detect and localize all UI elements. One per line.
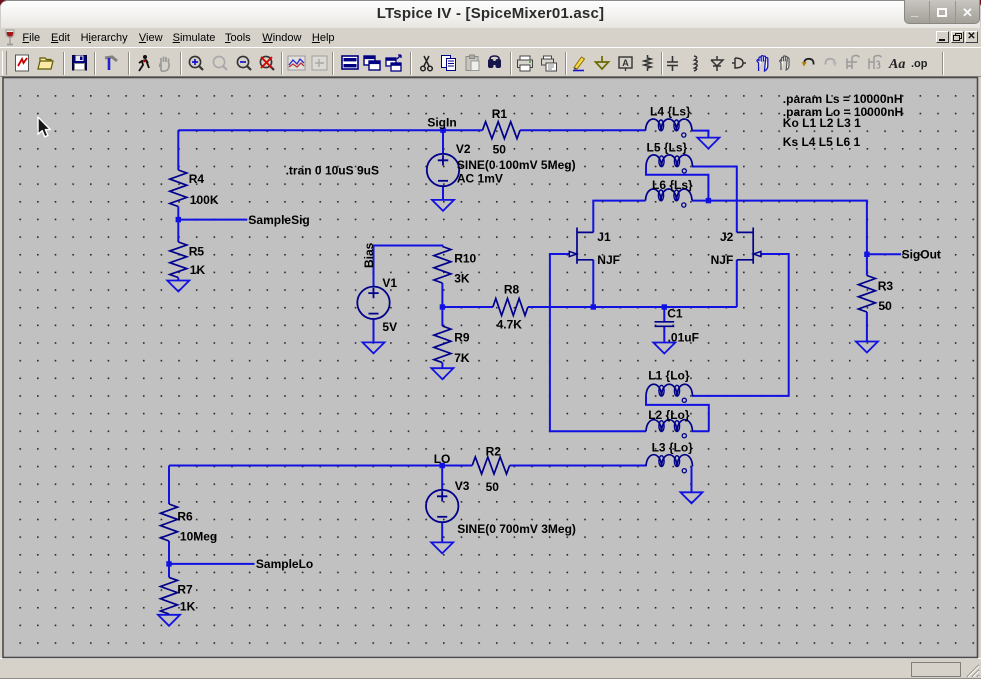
- svg-text:50: 50: [493, 142, 507, 156]
- svg-text:1K: 1K: [190, 263, 206, 277]
- wire: [373, 319, 375, 342]
- svg-text:SINE(0 700mV 3Meg): SINE(0 700mV 3Meg): [457, 522, 576, 536]
- node SigIn junction: [440, 128, 445, 133]
- wire: [692, 131, 708, 138]
- wire: [177, 130, 179, 170]
- resistor R4: [170, 170, 219, 207]
- inductor L4: [646, 104, 693, 137]
- node bias divider junction: [440, 304, 445, 309]
- resistor R1: [483, 107, 521, 157]
- node LO junction: [440, 463, 445, 468]
- svg-text:NJF: NJF: [711, 253, 734, 267]
- svg-text:1K: 1K: [180, 599, 196, 613]
- svg-text:L1 {Lo}: L1 {Lo}: [648, 369, 690, 383]
- wire: [441, 522, 443, 542]
- svg-text:.tran 0 10uS 9uS: .tran 0 10uS 9uS: [286, 164, 379, 178]
- svg-text:J1: J1: [597, 230, 611, 244]
- svg-text:SigOut: SigOut: [902, 247, 941, 261]
- svg-text:R3: R3: [878, 279, 894, 293]
- wire: [177, 278, 179, 281]
- resistor R8: [493, 283, 528, 332]
- window buttons: [904, 0, 981, 24]
- wire: [510, 465, 646, 467]
- wire: [441, 466, 443, 490]
- svg-text:L6 {Ls}: L6 {Ls}: [652, 178, 693, 192]
- ground: [431, 368, 453, 379]
- inductor L1: [646, 369, 693, 403]
- wire: [593, 201, 645, 233]
- svg-text:SampleSig: SampleSig: [248, 213, 309, 227]
- wire: [550, 254, 646, 431]
- svg-text:R4: R4: [189, 172, 205, 186]
- transistor J2: [711, 228, 761, 268]
- svg-text:SampleLo: SampleLo: [256, 557, 313, 571]
- wire: [374, 246, 443, 287]
- wire: [691, 466, 693, 492]
- ground: [432, 200, 454, 211]
- svg-text:5V: 5V: [382, 320, 397, 334]
- status bar: [0, 658, 981, 679]
- ground: [653, 343, 675, 354]
- voltage source V2: [427, 142, 576, 186]
- toolbar: [0, 47, 981, 77]
- svg-text:R8: R8: [504, 283, 520, 297]
- resistor R10: [434, 247, 477, 286]
- wire: [592, 260, 594, 307]
- svg-text:50: 50: [878, 299, 892, 313]
- voltage source V1: [357, 276, 397, 334]
- wire: [866, 312, 868, 342]
- resistor R7: [161, 577, 196, 614]
- transistor J1: [569, 228, 620, 268]
- node J1 source junction: [591, 304, 596, 309]
- wire: [867, 253, 901, 255]
- svg-text:.01uF: .01uF: [668, 331, 699, 345]
- wire: [866, 254, 868, 275]
- wire: [528, 306, 737, 308]
- svg-text:V1: V1: [382, 276, 397, 290]
- node SampleLo junction: [166, 561, 171, 566]
- wire: [168, 541, 170, 577]
- node C1 junction: [662, 304, 667, 309]
- svg-text:L5 {Ls}: L5 {Ls}: [647, 141, 688, 155]
- wire: [442, 306, 493, 308]
- svg-text:R2: R2: [486, 445, 502, 459]
- resistor R2: [472, 445, 509, 494]
- title bar: [0, 0, 981, 28]
- mdi buttons: [936, 31, 949, 43]
- resistor R9: [434, 326, 470, 365]
- svg-text:L2 {Lo}: L2 {Lo}: [648, 408, 690, 422]
- ground: [363, 342, 385, 353]
- wire: [646, 167, 708, 201]
- wire: [178, 129, 482, 131]
- wire: [169, 563, 255, 565]
- voltage source V3: [426, 479, 576, 536]
- svg-text:R5: R5: [189, 244, 205, 258]
- svg-text:R7: R7: [177, 583, 193, 597]
- node SampleSig junction: [176, 217, 181, 222]
- svg-text:L4 {Ls}: L4 {Ls}: [650, 104, 691, 118]
- svg-text:C1: C1: [667, 307, 683, 321]
- svg-text:Ko L1 L2 L3 1: Ko L1 L2 L3 1: [783, 116, 861, 130]
- svg-text:50: 50: [486, 480, 500, 494]
- svg-text:R6: R6: [177, 510, 193, 524]
- wire: [692, 254, 789, 396]
- svg-text:J2: J2: [720, 230, 734, 244]
- wire: [169, 465, 472, 467]
- wire: [442, 130, 444, 154]
- svg-text:R9: R9: [454, 331, 470, 345]
- ground: [681, 492, 703, 503]
- wire: [736, 260, 738, 307]
- wire: [178, 219, 247, 221]
- svg-text:SigIn: SigIn: [427, 116, 456, 130]
- wire: [442, 186, 444, 200]
- ground: [158, 615, 180, 626]
- node SigOut junction: [864, 252, 869, 257]
- wire: [692, 167, 737, 233]
- inductor L6: [646, 178, 694, 207]
- wire: [692, 201, 867, 255]
- ground: [697, 138, 719, 149]
- ground: [856, 342, 878, 353]
- svg-text:V2: V2: [456, 142, 471, 156]
- ground: [167, 281, 189, 292]
- svg-text:SINE(0 100mV 5Meg): SINE(0 100mV 5Meg): [457, 158, 576, 172]
- menu bar: [4, 29, 16, 47]
- svg-text:Bias: Bias: [362, 242, 376, 268]
- svg-text:100K: 100K: [190, 193, 219, 207]
- svg-text:.param Ls = 10000nH: .param Ls = 10000nH: [783, 92, 903, 106]
- svg-text:R1: R1: [492, 107, 508, 121]
- inductor L2: [646, 408, 693, 438]
- inductor L3: [646, 441, 693, 473]
- resistor R5: [170, 242, 206, 278]
- resistor R3: [858, 276, 893, 314]
- wire: [441, 283, 443, 326]
- wire: [168, 466, 170, 505]
- svg-text:NJF: NJF: [597, 253, 620, 267]
- svg-text:10Meg: 10Meg: [180, 530, 217, 544]
- wire: [441, 363, 443, 369]
- svg-text:AC 1mV: AC 1mV: [457, 172, 503, 186]
- svg-text:4.7K: 4.7K: [497, 318, 523, 332]
- svg-text:V3: V3: [455, 479, 470, 493]
- node L6-SigOut junction: [706, 198, 711, 203]
- ground: [431, 542, 453, 553]
- wire: [646, 396, 709, 431]
- mouse cursor: [38, 117, 50, 137]
- svg-text:R10: R10: [454, 252, 476, 266]
- svg-text:7K: 7K: [454, 351, 470, 365]
- inductor L5: [646, 141, 693, 173]
- svg-text:Ks L4 L5 L6 1: Ks L4 L5 L6 1: [783, 135, 861, 149]
- svg-text:L3 {Lo}: L3 {Lo}: [652, 441, 694, 455]
- wire: [177, 207, 179, 243]
- wire: [520, 129, 645, 131]
- svg-text:LO: LO: [434, 452, 451, 466]
- svg-text:3K: 3K: [454, 272, 470, 286]
- resistor R6: [161, 504, 218, 544]
- wire: [663, 307, 665, 343]
- capacitor C1: [655, 307, 699, 345]
